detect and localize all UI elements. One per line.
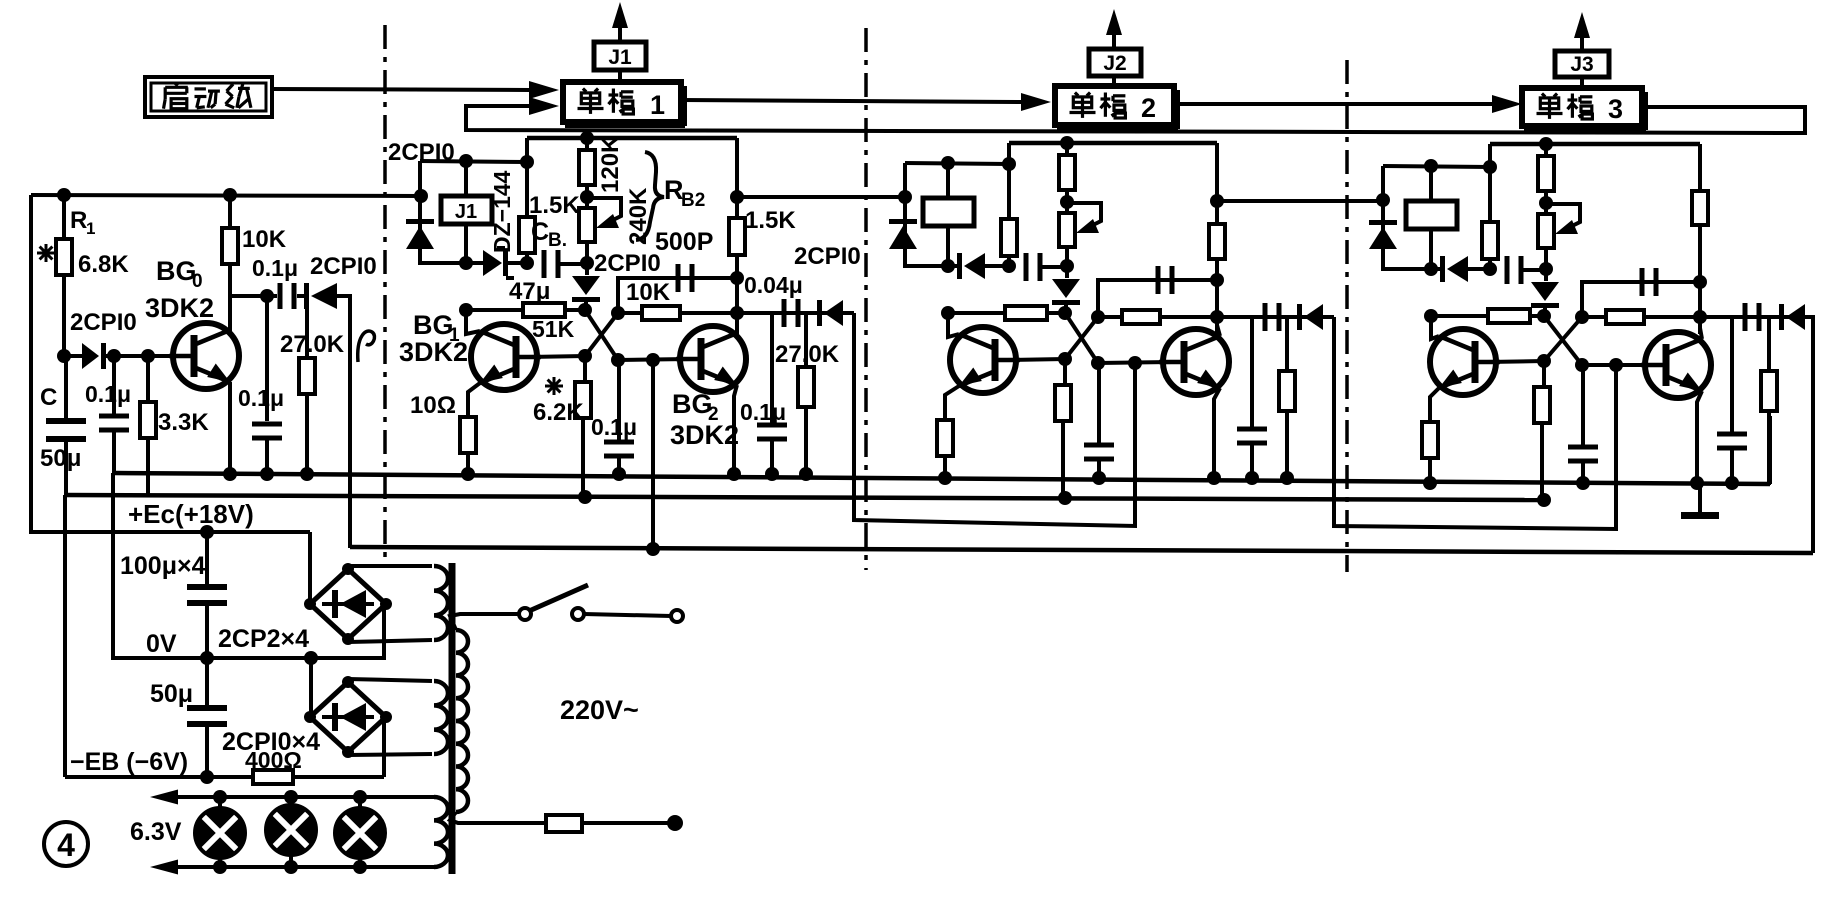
relay label box J3	[1555, 51, 1609, 77]
stage2 resistor 1.5K right	[1209, 224, 1225, 259]
stage3 resistor 27.0K right	[1767, 317, 1771, 371]
svg-text:J3: J3	[1570, 53, 1593, 76]
diode 2CPI0 coupling	[304, 283, 309, 309]
figure number circle 4	[44, 822, 88, 866]
stage2 resistor 27.0K right	[1285, 317, 1289, 371]
feedback wire 单稳3 output loop	[466, 106, 1805, 133]
stage1 pot wiper arrow	[593, 198, 621, 225]
stage1 wire BGL emitter	[468, 383, 480, 417]
svg-text:2CPI0: 2CPI0	[388, 139, 455, 166]
stage3 node 1.5K bottom	[1483, 262, 1497, 276]
stage1 zener diode DZ-144	[466, 261, 483, 265]
svg-text:10K: 10K	[242, 226, 287, 253]
stage1 wire pot bottom	[585, 242, 589, 263]
stage3 relay coil box	[1429, 166, 1433, 201]
svg-text:J2: J2	[1103, 52, 1126, 75]
svg-text:3DK2: 3DK2	[670, 420, 739, 450]
svg-text:6.2K: 6.2K	[533, 399, 584, 426]
stage3 node 1.5K top	[1483, 160, 1497, 174]
wire BG0 collector	[228, 296, 232, 332]
svg-text:2CP2×4: 2CP2×4	[218, 625, 309, 653]
stage2 node bias left	[941, 306, 955, 320]
stage1 node emitter rail	[461, 467, 475, 481]
switch contact 2	[572, 608, 584, 620]
node 3.3K junction	[141, 349, 155, 363]
wire input to base	[114, 354, 175, 358]
stage1 left column	[420, 161, 466, 263]
stage1 wire BGL base	[528, 356, 585, 357]
stage1 node 1.5K top	[520, 155, 534, 169]
node 27.0K top	[305, 296, 309, 358]
wire 单稳1 to 单稳2	[681, 100, 1022, 102]
rail 2 -EB bus	[65, 495, 1542, 500]
stage3 node relay bottom	[1424, 262, 1438, 276]
svg-text:DZ−144: DZ−144	[489, 170, 515, 253]
stage3 capacitor 0.1u right	[1730, 317, 1734, 432]
stage1 capacitor 0.1u timing	[617, 360, 621, 440]
stage2 relay coil box	[946, 163, 950, 198]
stage3 resistor 51K	[1488, 309, 1530, 323]
stage3 capacitor 0.1u timing	[1581, 365, 1585, 445]
stage3 cross wire 1	[1544, 316, 1582, 365]
stage2 wire y161	[905, 163, 1009, 164]
wire switch to terminal	[584, 614, 671, 616]
stage2 diode horizontal	[948, 264, 957, 268]
stage3 rail left drop	[1488, 144, 1492, 269]
wire BG0 output	[230, 294, 277, 298]
svg-text:6.3V: 6.3V	[130, 818, 182, 846]
capacitor 50u	[205, 658, 209, 706]
bus B right end up to stage3 coupling	[1811, 317, 1815, 553]
stage2 wire 500P row	[1098, 280, 1217, 317]
stage1 node 6.2K rail2	[578, 490, 592, 504]
svg-text:1: 1	[650, 90, 665, 120]
bridge rectifier 2CPI0x4	[310, 682, 386, 752]
node lamp1 top	[213, 790, 227, 804]
stage3 resistor 120K	[1544, 144, 1548, 156]
fuse	[546, 815, 582, 832]
wire +Ec bus	[31, 530, 310, 534]
svg-text:B2: B2	[681, 190, 705, 211]
stage2 node X bottom-left	[1058, 352, 1072, 366]
stage1 capacitor 0.1u right	[770, 313, 774, 423]
stage1 resistor 6.2K	[583, 356, 587, 382]
svg-text:50μ: 50μ	[150, 680, 193, 708]
stage2 node BGR emitter rail	[1207, 471, 1221, 485]
stage2 pot wiper arrow	[1073, 203, 1101, 230]
stage3 resistor 1.5K right	[1692, 191, 1708, 225]
stage1 node relay bottom	[459, 256, 473, 270]
stage2 node 10K right	[1210, 310, 1224, 324]
wire primary top lead	[450, 614, 520, 630]
wire BG0 emitter	[228, 382, 232, 476]
svg-text:3.3K: 3.3K	[158, 409, 209, 436]
stage2 right column	[1215, 143, 1219, 334]
stage2 node cap right rail	[1245, 471, 1259, 485]
stage3 resistor 10K cross	[1606, 310, 1644, 324]
node 100u top	[200, 525, 214, 539]
stage3 capacitor 500P	[1640, 268, 1645, 296]
svg-text:51K: 51K	[532, 316, 575, 342]
stage1 wire base bias	[466, 308, 585, 312]
svg-text:C: C	[40, 384, 57, 411]
wire J2 up with arrow	[1112, 19, 1116, 49]
node lamp3 top	[353, 790, 367, 804]
stage3 wire BGR emitter	[1697, 391, 1702, 485]
wire 0V bus	[112, 656, 384, 660]
stage2 wire 10ohm to rail	[943, 456, 947, 480]
wire bridge1 right to 0V	[382, 604, 386, 660]
node 100u bottom on 0V	[200, 651, 214, 665]
stage1 rail left drop	[525, 138, 529, 263]
stage3 wire 500P row	[1582, 282, 1700, 317]
stage2 diode 2CPI0 below pot	[1065, 266, 1069, 278]
svg-text:0: 0	[192, 271, 203, 292]
node input left	[57, 349, 71, 363]
stage1 wire coupling row	[737, 311, 854, 315]
stage2 wire to next stage	[1217, 199, 1383, 203]
svg-text:BG: BG	[413, 310, 454, 340]
relay label box J2	[1089, 49, 1141, 76]
stage2 wire BGR collector	[1217, 317, 1220, 336]
stage2 wire 10K row	[1098, 315, 1217, 319]
link stage2 to stage3	[1334, 317, 1616, 529]
stage2 node X top-right	[1091, 310, 1105, 324]
svg-text:R: R	[70, 207, 87, 234]
wire J2 to 单稳2	[1112, 76, 1116, 87]
terminal dot	[667, 815, 683, 831]
svg-text:6.8K: 6.8K	[78, 251, 129, 278]
stage3 capacitor CB	[1505, 256, 1510, 284]
arrowhead lamp top	[150, 790, 178, 805]
stage3 cross wire 2	[1544, 317, 1582, 361]
stage3 node X bottom-left	[1537, 354, 1551, 368]
stage1 wire BGR emitter	[734, 385, 737, 476]
resistor R1 6.8K	[56, 239, 72, 275]
stage3 node X top-right	[1575, 310, 1589, 324]
stage3 node 500P right	[1693, 275, 1707, 289]
stage1 right column	[735, 138, 739, 334]
stage1 node 1.5K bottom	[520, 256, 534, 270]
stage2 resistor 10K cross	[1122, 310, 1160, 324]
svg-text:0.1μ: 0.1μ	[591, 414, 637, 440]
stage3 node emitter rail	[1423, 476, 1437, 490]
stage1 node bias left	[459, 303, 473, 317]
svg-text:2CPI0: 2CPI0	[794, 243, 861, 270]
wire +Ec corner to bridge 1	[310, 532, 311, 604]
node 0.1u junction	[107, 349, 121, 363]
svg-text:220V~: 220V~	[560, 695, 639, 725]
arrowhead into 单稳1 input 1	[529, 81, 559, 99]
stage2 diode coupling	[1297, 304, 1302, 330]
wire J1 to 单稳1	[618, 70, 622, 81]
stage2 transistor BGL	[950, 327, 1016, 393]
stage2 node emitter rail	[938, 471, 952, 485]
stage1 wire 500P row	[618, 278, 737, 313]
wire 10K to collector node	[228, 264, 232, 298]
stage2 node 1.5K bottom	[1002, 259, 1016, 273]
svg-text:3DK2: 3DK2	[145, 293, 214, 323]
stage1 resistor 27.0K right	[804, 313, 808, 367]
node lamp2 bottom	[284, 860, 298, 874]
lamp top wire	[160, 795, 434, 799]
svg-text:10K: 10K	[626, 279, 671, 306]
stray curl mark near divider 1	[358, 331, 375, 362]
wire 单稳2 to 单稳3	[1174, 102, 1493, 106]
diode 2CPI0 input	[64, 354, 82, 358]
link stage1 to stage2	[854, 313, 1135, 526]
node 50u bottom on -EB	[200, 770, 214, 784]
svg-text:100μ×4: 100μ×4	[120, 552, 206, 580]
section divider 2 (dash-dot)	[864, 28, 868, 570]
lamp 3	[358, 797, 362, 809]
stage1 transistor BGL	[471, 324, 537, 390]
stage3 wire BGL collector	[1431, 316, 1439, 339]
stage3 node bias left	[1424, 309, 1438, 323]
stage2 resistor 120K	[1065, 143, 1069, 155]
stage1 label ※ 6.2K	[545, 385, 563, 388]
stage3 wire 10K row	[1582, 315, 1700, 319]
arrowhead into 单稳3	[1492, 95, 1522, 113]
bus B trigger feedback	[350, 547, 1813, 553]
svg-text:2CPI0: 2CPI0	[70, 309, 137, 336]
wire bridge2 top to winding B	[348, 679, 432, 681]
stage1 node X top-left	[578, 303, 592, 317]
stage3 node 10K right	[1693, 310, 1707, 324]
winding A secondary	[434, 566, 448, 640]
svg-text:47μ: 47μ	[509, 278, 550, 305]
block label 启动级 (trigger stage)	[145, 77, 272, 117]
stage1 resistor 1.5K right	[729, 218, 745, 255]
stage2 wire BGL collector	[948, 313, 959, 337]
svg-text:C: C	[531, 218, 549, 246]
block 单稳3 (monostable 3)	[1522, 88, 1642, 126]
svg-text:4: 4	[57, 827, 75, 863]
capacitor 0.1u bypass	[265, 296, 269, 421]
stage2 capacitor 0.04u	[1263, 303, 1268, 331]
svg-text:27.0K: 27.0K	[280, 331, 345, 358]
stage1 node timing cap rail	[612, 467, 626, 481]
stage1 diode input 2CPI0 vertical	[406, 219, 434, 224]
stage1 resistor 120K	[585, 138, 589, 150]
wire primary bottom lead	[450, 812, 546, 823]
svg-text:0.1μ: 0.1μ	[85, 381, 131, 407]
wire -EB left riser	[63, 495, 67, 777]
resistor 27.0K BG0	[299, 358, 315, 394]
svg-text:−EB (−6V): −EB (−6V)	[70, 748, 188, 776]
stage3 node base feed	[1609, 358, 1623, 372]
stage1 wire 10ohm to rail	[466, 453, 470, 476]
stage3 node X bottom-right	[1575, 358, 1589, 372]
stage3 wire BGL base	[1487, 361, 1544, 362]
stage2 node 500P right	[1210, 273, 1224, 287]
stage1 potentiometer 240K	[579, 208, 595, 242]
stage2 node relay feed	[941, 156, 955, 170]
wire stage1 base feed from bus B	[651, 358, 655, 549]
stage1 diode 2CPI0 below pot	[585, 263, 589, 275]
wire 0V down to bridge 2	[309, 658, 313, 717]
wire -EB up to bridge 2 right	[382, 717, 386, 777]
svg-text:0.1μ: 0.1μ	[238, 385, 284, 411]
wire 10K top lead	[228, 195, 232, 228]
stage2 wire BGR base	[1098, 362, 1172, 363]
wire bridge1 top to winding A	[348, 564, 432, 568]
stage2 node X top-left	[1058, 306, 1072, 320]
stage1 node 27K rail	[799, 467, 813, 481]
stage3 wire pot top	[1544, 203, 1548, 214]
node BG0 emitter on rail	[223, 467, 237, 481]
stage3 node BGR emitter rail	[1690, 476, 1704, 490]
stage3 resistor 6.2K	[1542, 361, 1546, 387]
switch terminal circle	[671, 610, 683, 622]
svg-text:2CPI0: 2CPI0	[594, 250, 661, 277]
stage1 resistor 51K	[523, 303, 565, 317]
stage3 wire coupling row	[1700, 315, 1815, 319]
svg-text:0.04μ: 0.04μ	[744, 272, 803, 298]
stage2 node out wire	[1210, 194, 1224, 208]
svg-text:J1: J1	[608, 46, 632, 69]
stage3 node X top-left	[1537, 309, 1551, 323]
stage1 node X bottom-left	[578, 349, 592, 363]
ground symbol	[1698, 484, 1702, 512]
svg-text:240K: 240K	[625, 187, 652, 245]
stage3 node pot bottom	[1539, 262, 1553, 276]
stage3 resistor 10ohm emitter	[1422, 422, 1438, 458]
stage1 wire 10K row	[618, 311, 737, 315]
stage1 node base feed	[646, 353, 660, 367]
stage3 node relay feed	[1424, 159, 1438, 173]
wire J3 to 单稳3	[1580, 77, 1584, 88]
stage1 node 500P right	[730, 271, 744, 285]
wire J3 up with arrow	[1580, 22, 1584, 51]
transistor BG0 3DK2	[173, 323, 239, 389]
resistor 3.3K	[146, 356, 150, 402]
stage1 cross wire 1	[585, 310, 618, 360]
section divider 1 (dash-dot)	[383, 25, 387, 560]
wire J1 up with arrow	[618, 12, 622, 42]
wire R1 top lead	[62, 195, 66, 239]
stage2 node X bottom-right	[1091, 356, 1105, 370]
rail 2 right end up	[1540, 424, 1544, 500]
stage1 node pot bottom	[580, 256, 594, 270]
node lamp3 bottom	[353, 860, 367, 874]
stage2 capacitor 0.1u right	[1250, 317, 1254, 427]
svg-text:50μ: 50μ	[40, 445, 81, 472]
node 10K top	[223, 188, 237, 202]
node bridge2 drop on 0V	[304, 651, 318, 665]
svg-text:1.5K: 1.5K	[529, 192, 580, 219]
stage2 node timing cap rail	[1092, 471, 1106, 485]
stage2 node base feed	[1128, 356, 1142, 370]
stage2 transistor BGR	[1163, 329, 1229, 395]
stage1 capacitor 0.04u	[782, 299, 787, 327]
stage1 node 120K bottom	[585, 185, 589, 199]
rail 1 left end down to 0V	[111, 473, 115, 660]
stage3 wire base bias	[1431, 314, 1544, 318]
stage1 top rail	[527, 136, 737, 141]
stage1 wire BGR collector	[735, 313, 739, 333]
svg-text:BG: BG	[156, 256, 197, 286]
stage1 wire BGL collector	[466, 310, 480, 334]
block 单稳1 (monostable 1)	[563, 82, 681, 122]
rail 1 emitter bus	[115, 473, 1770, 484]
relay label box J1	[594, 42, 646, 70]
stage2 node 120K bottom	[1065, 190, 1069, 204]
stage3 diode 2CPI0 below pot	[1544, 269, 1548, 281]
wire BG0 output corner down	[337, 296, 350, 548]
winding B secondary	[434, 681, 448, 754]
stage2 diode input vertical	[889, 219, 917, 224]
wire cap to diode	[297, 294, 304, 298]
stage2 resistor 10ohm emitter	[937, 420, 953, 456]
stage3 diode coupling	[1779, 304, 1784, 330]
stage3 node timing cap rail	[1576, 476, 1590, 490]
stage1 diode coupling	[817, 300, 822, 326]
stage1 wire CB to pot	[560, 262, 587, 266]
node lamp1 bottom	[213, 860, 227, 874]
stage2 wire BGR emitter	[1214, 388, 1220, 480]
stage2 capacitor 500P	[1156, 266, 1161, 294]
stage3 wire CB to pot	[1523, 268, 1546, 272]
rail 1 right end up	[1768, 416, 1772, 484]
stage1 node 10K right	[730, 306, 744, 320]
node R1 top	[57, 188, 71, 202]
stage1 wire y161	[420, 161, 527, 162]
stage2 node 27K rail	[1280, 471, 1294, 485]
stage1 resistor 1.5K left	[519, 217, 535, 253]
svg-text:120K: 120K	[597, 135, 624, 193]
lamp bottom wire	[160, 865, 434, 869]
stage1 resistor 10K cross	[642, 306, 680, 320]
stage2 wire CB to pot	[1042, 265, 1067, 269]
stage3 wire 10ohm to rail	[1428, 458, 1432, 485]
svg-text:2: 2	[1141, 93, 1156, 123]
stage1 node out wire	[730, 190, 744, 204]
stage1 node X top-right	[611, 306, 625, 320]
stage1 node cap right rail	[765, 467, 779, 481]
svg-text:BG: BG	[672, 389, 713, 419]
svg-text:1.5K: 1.5K	[745, 207, 796, 234]
switch lever	[529, 585, 588, 611]
stage1 brace RB2	[636, 152, 664, 240]
svg-text:+Ec(+18V): +Ec(+18V)	[128, 499, 254, 529]
switch contact pivot	[519, 608, 531, 620]
resistor 400	[253, 770, 293, 784]
stage2 capacitor 0.1u timing	[1097, 363, 1101, 443]
stage2 wire BGL emitter	[945, 386, 959, 420]
stage2 resistor 1.5K left	[1001, 219, 1017, 256]
stage2 wire pot top	[1065, 202, 1069, 213]
wire 启动级 to 单稳1	[272, 89, 530, 90]
node lamp2 top	[284, 790, 298, 804]
stage1 wire pot top	[585, 197, 589, 208]
stage2 wire pot bottom	[1065, 247, 1069, 266]
stage2 node 120K top	[1060, 136, 1074, 150]
stage3 transistor BGL	[1430, 329, 1496, 395]
arrowhead into 单稳2	[1021, 93, 1051, 111]
svg-text:0.1μ: 0.1μ	[252, 255, 298, 281]
stage1 capacitor 500P	[676, 264, 681, 292]
stage1 capacitor CB	[542, 250, 547, 278]
stage3 pot wiper arrow	[1552, 204, 1580, 231]
capacitor C 50u	[64, 356, 68, 418]
svg-text:27.0K: 27.0K	[775, 341, 840, 368]
stage3 wire BGR collector	[1700, 317, 1702, 339]
winding C 6.3V secondary	[434, 797, 448, 867]
stage3 node 120K bottom	[1544, 191, 1548, 205]
wire 27.0K to rail	[305, 394, 309, 476]
resistor 10K collector	[222, 228, 238, 264]
